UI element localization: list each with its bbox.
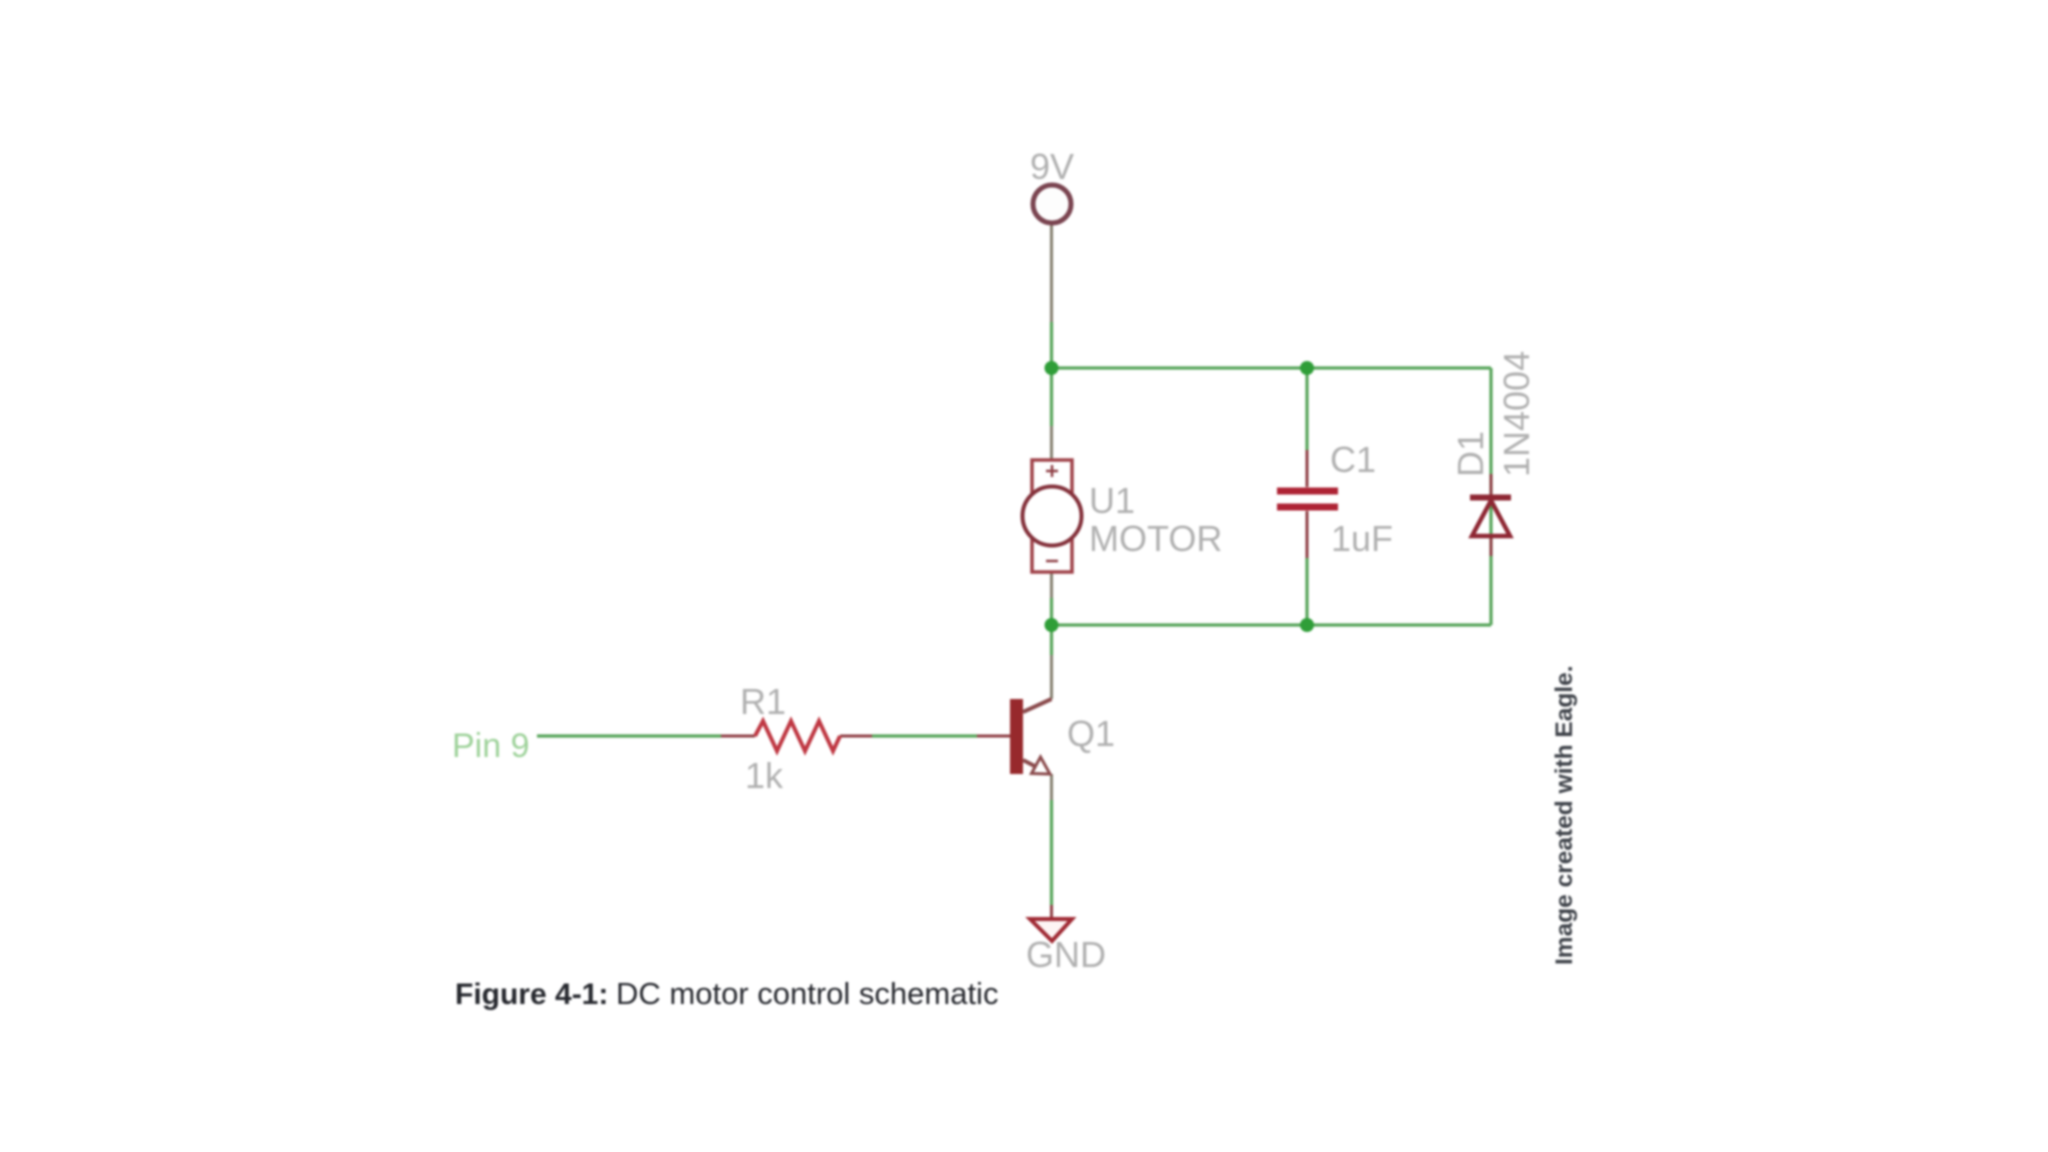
svg-text:U1: U1 bbox=[1089, 480, 1135, 521]
svg-text:9V: 9V bbox=[1030, 146, 1074, 187]
svg-text:C1: C1 bbox=[1330, 439, 1376, 480]
svg-text:MOTOR: MOTOR bbox=[1089, 518, 1222, 559]
svg-text:R1: R1 bbox=[740, 681, 786, 722]
svg-text:Q1: Q1 bbox=[1067, 713, 1115, 754]
svg-text:1k: 1k bbox=[745, 755, 784, 796]
svg-text:1uF: 1uF bbox=[1331, 518, 1393, 559]
svg-text:GND: GND bbox=[1026, 934, 1106, 975]
svg-text:Figure 4-1:DC motor control sc: Figure 4-1:DC motor control schematic bbox=[455, 976, 998, 1011]
svg-text:1N4004: 1N4004 bbox=[1496, 351, 1537, 477]
svg-text:Image created with Eagle.: Image created with Eagle. bbox=[1551, 665, 1578, 965]
svg-text:Pin 9: Pin 9 bbox=[452, 727, 530, 765]
svg-text:D1: D1 bbox=[1450, 431, 1491, 477]
